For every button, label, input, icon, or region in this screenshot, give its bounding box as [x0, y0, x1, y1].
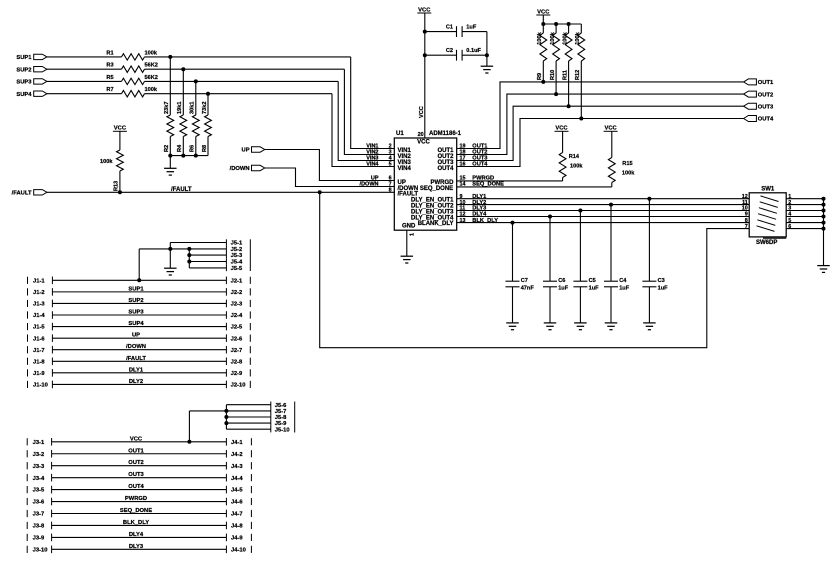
- wire /DOWN: [265, 168, 395, 187]
- ground J5 bank1: [164, 268, 177, 275]
- wire divider ground bus: [170, 155, 208, 157]
- node /FAULT route junction: [318, 190, 322, 194]
- node R12/OUT4: [579, 117, 583, 121]
- resistor R4: [177, 102, 187, 152]
- svg-text:9: 9: [745, 212, 748, 218]
- capacitor C7: [506, 278, 535, 292]
- svg-text:J1-6: J1-6: [33, 336, 45, 342]
- svg-text:J1-4: J1-4: [33, 313, 45, 319]
- ground U1: [401, 256, 414, 263]
- node R9 bus: [541, 22, 545, 26]
- label J5-10: [275, 427, 290, 433]
- svg-text:J2-5: J2-5: [231, 325, 243, 331]
- wire J3-8/J4-8 row: [27, 520, 251, 530]
- svg-text:OUT1: OUT1: [128, 448, 144, 454]
- wire SUP2 to VIN2: [344, 69, 394, 154]
- capacitor C3: [642, 278, 668, 292]
- node R6 bus junction: [194, 154, 198, 158]
- svg-text:R12: R12: [575, 70, 581, 80]
- svg-text:C3: C3: [658, 278, 665, 284]
- svg-text:OUT4: OUT4: [128, 484, 144, 490]
- port flag UP: [242, 147, 265, 154]
- capacitor C6: [543, 278, 569, 292]
- wire R4 bottom lead: [182, 137, 184, 156]
- svg-text:J3-10: J3-10: [33, 547, 48, 553]
- wire SUP2 sense line: [145, 68, 345, 70]
- wire C7 bottom lead: [512, 287, 514, 323]
- svg-text:C7: C7: [521, 278, 528, 284]
- svg-text:100k: 100k: [145, 87, 158, 93]
- svg-text:J4-10: J4-10: [231, 547, 246, 553]
- svg-text:J5-8: J5-8: [275, 415, 287, 421]
- svg-text:100k: 100k: [100, 159, 113, 165]
- port flag /FAULT: [12, 190, 47, 197]
- wire J1-4/J2-4 row: [28, 310, 251, 320]
- label OUT2 net: [472, 150, 487, 156]
- wire J1-6/J2-6 row: [28, 333, 251, 343]
- svg-text:J5-1: J5-1: [231, 241, 243, 247]
- wire C3 top lead: [648, 199, 650, 282]
- svg-text:VCC: VCC: [130, 436, 143, 442]
- wire OUT2 from U1: [457, 94, 744, 154]
- wire J5-8 stub: [226, 414, 270, 420]
- wire R11 to OUT3: [568, 61, 570, 106]
- svg-text:J5-9: J5-9: [275, 421, 287, 427]
- label VIN4 net: [366, 162, 379, 168]
- wire SW1 pin 1 to bus: [786, 198, 823, 200]
- svg-text:VIN4: VIN4: [398, 166, 412, 172]
- wire J3-3/J4-3 row: [27, 460, 251, 470]
- svg-text:BLK_DLY: BLK_DLY: [123, 520, 149, 526]
- node R9/OUT1: [541, 80, 545, 84]
- svg-text:J5-7: J5-7: [275, 409, 287, 415]
- wire C1 left lead: [425, 31, 457, 33]
- svg-text:U1: U1: [396, 131, 404, 137]
- wire J1-5/J2-5 row: [28, 321, 251, 331]
- wire R6 top lead: [195, 81, 197, 115]
- svg-text:R13: R13: [114, 181, 120, 191]
- wire SUP4 to VIN4: [332, 94, 394, 167]
- wire SUP2 to R3: [47, 68, 122, 70]
- svg-text:1uF: 1uF: [658, 286, 669, 292]
- svg-text:J3-8: J3-8: [33, 524, 45, 530]
- svg-text:J3-5: J3-5: [33, 488, 45, 494]
- svg-text:BLANK_DLY: BLANK_DLY: [418, 221, 454, 227]
- svg-text:PWRGD: PWRGD: [125, 496, 147, 502]
- wire J5-6 stub: [226, 402, 270, 408]
- resistor R3: [106, 63, 157, 73]
- svg-text:J2-1: J2-1: [231, 278, 243, 284]
- capacitor C1: [446, 25, 477, 37]
- wire R9-R12 VCC bus: [543, 23, 581, 25]
- port flag /DOWN: [230, 165, 265, 172]
- resistor R2: [164, 102, 174, 152]
- pin 11 U1: [460, 206, 466, 212]
- svg-text:OUT1: OUT1: [758, 80, 774, 86]
- wire U1 pin1 ground: [407, 230, 416, 256]
- pin 7 SW1: [745, 224, 748, 230]
- node J3-1 junction: [187, 440, 191, 444]
- svg-text:J1-7: J1-7: [33, 348, 45, 354]
- pin 4 U1: [389, 156, 392, 162]
- svg-text:DLY4: DLY4: [129, 532, 144, 538]
- ground C4: [605, 323, 618, 330]
- wire J5 bank1 bracket: [249, 239, 251, 271]
- label J5-6: [275, 403, 287, 409]
- svg-text:5: 5: [389, 162, 392, 168]
- svg-text:13: 13: [460, 218, 466, 224]
- node C1 tap: [423, 30, 427, 34]
- wire SUP4 sense line: [145, 93, 333, 95]
- svg-text:J5-2: J5-2: [231, 247, 243, 253]
- wire SEQ_DONE: [457, 186, 612, 188]
- svg-text:/FAULT: /FAULT: [171, 187, 192, 193]
- label DLY3 net: [472, 206, 486, 212]
- wire SW1 pin 5 to bus: [786, 222, 823, 224]
- svg-text:/FAULT: /FAULT: [126, 356, 146, 362]
- svg-text:8: 8: [389, 188, 392, 194]
- node SW1 bus 4: [822, 215, 826, 219]
- svg-text:16: 16: [460, 162, 466, 168]
- wire bus to ground: [169, 156, 171, 169]
- resistor R11: [562, 24, 572, 80]
- node SW1 bus 1: [822, 197, 826, 201]
- pin 3 SW1: [788, 206, 791, 212]
- wire J1-7/J2-7 row: [28, 344, 251, 354]
- svg-text:VCC: VCC: [417, 139, 430, 145]
- svg-text:OUT3: OUT3: [128, 472, 144, 478]
- wire PWRGD: [457, 180, 563, 182]
- svg-text:DLY4: DLY4: [472, 212, 487, 218]
- pin 4 SW1: [788, 212, 791, 218]
- svg-text:1uF: 1uF: [589, 286, 600, 292]
- svg-text:SUP1: SUP1: [16, 55, 32, 61]
- wire J3-7/J4-7 row: [27, 508, 251, 518]
- wire SUP3 sense line: [145, 80, 339, 82]
- svg-text:J1-3: J1-3: [33, 302, 45, 308]
- svg-text:/DOWN: /DOWN: [360, 182, 379, 188]
- wire C2 right lead: [462, 54, 487, 56]
- wire J1-2/J2-2 row: [28, 286, 251, 296]
- svg-text:GND: GND: [402, 223, 416, 229]
- wire DLY2: [457, 204, 750, 206]
- wire R15 to SEQ_DONE: [611, 183, 613, 187]
- label J5-9: [275, 421, 287, 427]
- label UP net: [371, 176, 379, 182]
- svg-text:J3-1: J3-1: [33, 440, 45, 446]
- svg-text:56K2: 56K2: [145, 75, 158, 81]
- svg-text:R10: R10: [550, 70, 556, 80]
- wire R8 bottom lead: [207, 137, 209, 156]
- pin 15 U1: [460, 176, 466, 182]
- svg-text:DLY2: DLY2: [129, 379, 143, 385]
- node R10 bus: [554, 22, 558, 26]
- svg-text:R2: R2: [164, 145, 170, 152]
- op-amp U1 ADM1186-1 body: [394, 131, 461, 230]
- svg-text:J3-3: J3-3: [33, 464, 45, 470]
- label J5-7: [275, 409, 287, 415]
- wire VCC stem to pin 20: [419, 13, 425, 138]
- wire J5-2 stub: [139, 246, 226, 252]
- resistor R7: [106, 87, 157, 97]
- wire R10 to OUT2: [555, 61, 557, 94]
- wire OUT3 from U1: [457, 106, 744, 160]
- label DLY4 net: [472, 212, 487, 218]
- svg-text:7: 7: [745, 224, 748, 230]
- svg-text:OUT2: OUT2: [128, 460, 143, 466]
- node SUP2/R4 junction: [181, 67, 185, 71]
- wire R12 to OUT4: [580, 61, 582, 119]
- capacitor C4: [604, 278, 630, 292]
- port flag OUT4: [744, 116, 774, 123]
- svg-text:1: 1: [409, 233, 415, 236]
- svg-text:J3-4: J3-4: [33, 476, 45, 482]
- wire C6 top lead: [549, 217, 551, 282]
- wire J1-3/J2-3 row: [28, 298, 251, 308]
- wire R13 to /FAULT: [119, 171, 121, 192]
- wire SUP3 to R5: [47, 80, 122, 82]
- label J5-5: [231, 266, 243, 272]
- svg-text:J2-9: J2-9: [231, 371, 243, 377]
- power VCC R9-R12: [536, 9, 550, 24]
- svg-text:J5-4: J5-4: [231, 260, 243, 266]
- svg-text:J3-7: J3-7: [33, 512, 45, 518]
- pin 11 SW1: [742, 200, 748, 206]
- wire R4 top lead: [182, 69, 184, 115]
- svg-text:SEQ_DONE: SEQ_DONE: [120, 508, 152, 514]
- svg-text:J3-6: J3-6: [33, 500, 45, 506]
- svg-text:R15: R15: [622, 161, 632, 167]
- power VCC R14: [555, 126, 569, 132]
- pin 14 U1: [460, 182, 466, 188]
- wire SUP1 to VIN1: [351, 57, 395, 149]
- ground C3: [643, 323, 656, 330]
- node R10/OUT2: [554, 92, 558, 96]
- svg-text:J5-5: J5-5: [231, 266, 243, 272]
- node R11 bus: [567, 22, 571, 26]
- label DLY1 net: [472, 194, 486, 200]
- node R4 bus junction: [181, 154, 185, 158]
- ground divider bus: [164, 168, 177, 175]
- wire J5-1 ground leg: [169, 243, 171, 269]
- wire J5-3 stub: [189, 252, 226, 258]
- svg-text:J1-9: J1-9: [33, 371, 45, 377]
- resistor R8: [202, 102, 212, 152]
- svg-text:OUT2: OUT2: [758, 92, 773, 98]
- wire R6 bottom lead: [195, 137, 197, 156]
- resistor R15: [608, 131, 635, 182]
- node SUP1/R2 junction: [168, 55, 172, 59]
- pin 5 U1: [389, 162, 392, 168]
- svg-text:OUT3: OUT3: [758, 104, 774, 110]
- wire J3-10/J4-10 row: [27, 544, 251, 554]
- node J5-2 bus: [187, 247, 191, 251]
- node SW1 bus 3: [822, 209, 826, 213]
- svg-text:DLY1: DLY1: [129, 367, 144, 373]
- svg-text:R8: R8: [202, 145, 208, 152]
- svg-text:R4: R4: [177, 144, 183, 152]
- svg-text:J4-9: J4-9: [231, 536, 243, 542]
- wire J1-1/J2-1 row: [28, 277, 251, 285]
- svg-text:VCC: VCC: [419, 106, 425, 118]
- wire C1/C2 ground leg: [486, 32, 488, 67]
- svg-text:UP: UP: [132, 333, 140, 339]
- svg-text:J4-5: J4-5: [231, 488, 243, 494]
- node C7 tap: [511, 221, 515, 225]
- node SUP4/R8 junction: [206, 92, 210, 96]
- wire J5-2 to J1-1: [138, 249, 140, 280]
- svg-text:J4-3: J4-3: [231, 464, 243, 470]
- resistor R12: [575, 24, 585, 80]
- svg-text:J5-10: J5-10: [275, 427, 290, 433]
- svg-text:R11: R11: [562, 70, 568, 80]
- svg-text:SUP3: SUP3: [16, 80, 32, 86]
- svg-text:DLY3: DLY3: [129, 544, 144, 550]
- svg-text:VIN4: VIN4: [366, 162, 379, 168]
- wire C5 bottom lead: [579, 287, 581, 323]
- pin 8 SW1: [745, 218, 748, 224]
- wire J1-10/J2-10 row: [28, 379, 251, 389]
- power VCC U1: [417, 7, 431, 13]
- svg-text:SUP4: SUP4: [16, 92, 32, 98]
- svg-text:R6: R6: [190, 145, 196, 152]
- pin 16 U1: [460, 162, 466, 168]
- svg-text:J1-1: J1-1: [33, 278, 45, 284]
- label BLK_DLY net: [472, 218, 498, 224]
- node SW1 bus 6: [822, 227, 826, 231]
- svg-text:SW6DP: SW6DP: [756, 240, 777, 246]
- pin 18 U1: [460, 150, 466, 156]
- wire C6 bottom lead: [549, 287, 551, 323]
- wire J1-9/J2-9 row: [28, 367, 251, 377]
- label OUT1 net: [472, 144, 487, 150]
- wire J5 bank1 gnd bus: [188, 249, 190, 268]
- ground C5: [574, 323, 587, 330]
- node C4 tap: [609, 203, 613, 207]
- svg-text:UP: UP: [242, 148, 250, 154]
- svg-text:J2-6: J2-6: [231, 336, 243, 342]
- wire /FAULT line: [47, 191, 394, 193]
- svg-text:/DOWN: /DOWN: [126, 344, 146, 350]
- svg-text:OUT4: OUT4: [472, 162, 488, 168]
- node R2 bus junction: [168, 154, 172, 158]
- svg-text:73k2: 73k2: [202, 102, 208, 114]
- power VCC R13: [113, 126, 127, 150]
- svg-text:J4-6: J4-6: [231, 500, 243, 506]
- svg-text:30k1: 30k1: [190, 102, 196, 114]
- port flag SUP2: [16, 67, 47, 74]
- svg-text:R9: R9: [537, 73, 543, 80]
- ground C1/C2: [481, 66, 494, 73]
- wire SW1 pin 6 to bus: [786, 228, 823, 230]
- wire R2 bottom lead: [169, 137, 171, 156]
- svg-text:C6: C6: [558, 278, 565, 284]
- wire C4 bottom lead: [610, 287, 612, 323]
- svg-text:J1-8: J1-8: [33, 359, 45, 365]
- port flag OUT3: [744, 103, 774, 110]
- wire R14 to PWRGD: [562, 178, 564, 181]
- svg-text:/FAULT: /FAULT: [12, 190, 32, 196]
- wire J3-6/J4-6 row: [27, 496, 251, 506]
- label VIN1 net: [366, 144, 378, 150]
- label VIN3 net: [366, 156, 378, 162]
- node R11/OUT3: [567, 104, 571, 108]
- svg-text:100k: 100k: [562, 31, 568, 44]
- wire UP: [265, 150, 395, 181]
- pin 10 U1: [460, 200, 466, 206]
- svg-text:SUP3: SUP3: [128, 310, 144, 316]
- label J5-2: [231, 247, 243, 253]
- port flag SUP1: [16, 54, 47, 61]
- label DLY2 net: [472, 200, 486, 206]
- power VCC R15: [604, 126, 618, 132]
- svg-text:SUP4: SUP4: [128, 321, 144, 327]
- svg-text:J2-2: J2-2: [231, 290, 243, 296]
- wire DLY3: [457, 210, 750, 212]
- svg-text:100k: 100k: [145, 50, 158, 56]
- svg-text:C4: C4: [619, 278, 627, 284]
- capacitor C5: [573, 278, 599, 292]
- svg-text:J5-6: J5-6: [275, 403, 287, 409]
- wire J5-10 stub: [226, 426, 270, 432]
- port flag SUP3: [16, 79, 47, 86]
- svg-text:J4-7: J4-7: [231, 512, 243, 518]
- wire R9 to OUT1: [542, 61, 544, 82]
- svg-text:J3-2: J3-2: [33, 452, 45, 458]
- resistor R14: [559, 131, 583, 177]
- label OUT3 net: [472, 156, 487, 162]
- svg-text:SUP2: SUP2: [128, 298, 143, 304]
- pin 1 SW1: [788, 194, 791, 200]
- pin 12 SW1: [742, 194, 748, 200]
- label OUT4 net: [472, 162, 488, 168]
- resistor R6: [190, 102, 200, 152]
- wire C5 top lead: [579, 211, 581, 282]
- wire SUP4 to R7: [47, 93, 122, 95]
- svg-text:R3: R3: [106, 63, 113, 69]
- svg-text:56K2: 56K2: [145, 63, 158, 69]
- port flag OUT1: [744, 79, 774, 86]
- node J5-8 bus: [224, 415, 228, 419]
- node J5-4 bus: [187, 260, 191, 264]
- label VIN2 net: [366, 150, 378, 156]
- svg-text:J2-7: J2-7: [231, 348, 243, 354]
- wire J5-4 stub: [189, 258, 226, 264]
- node SW1 bus 5: [822, 221, 826, 225]
- svg-text:100k: 100k: [570, 164, 583, 170]
- svg-text:SUP1: SUP1: [128, 286, 144, 292]
- wire J3-5/J4-5 row: [27, 484, 251, 494]
- svg-text:1uF: 1uF: [466, 25, 477, 31]
- wire C3 bottom lead: [648, 287, 650, 323]
- wire OUT1 from U1: [457, 82, 744, 149]
- svg-text:SW1: SW1: [761, 186, 775, 192]
- port flag OUT2: [744, 91, 774, 98]
- wire SW1 pin 3 to bus: [786, 210, 823, 212]
- svg-text:R5: R5: [106, 75, 113, 81]
- wire J3-2/J4-2 row: [27, 448, 251, 458]
- ground C7: [506, 323, 519, 330]
- wire J5-9 stub: [226, 420, 270, 426]
- wire C2 left lead: [425, 54, 457, 56]
- svg-text:100k: 100k: [575, 31, 581, 44]
- svg-text:47nF: 47nF: [521, 286, 535, 292]
- svg-text:100k: 100k: [622, 170, 635, 176]
- svg-text:1uF: 1uF: [619, 286, 630, 292]
- wire DLY1: [457, 198, 750, 200]
- svg-text:J1-2: J1-2: [33, 290, 45, 296]
- wire SW1 pin 4 to bus: [786, 216, 823, 218]
